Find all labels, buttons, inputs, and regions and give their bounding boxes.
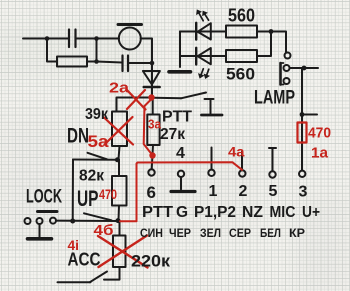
microphone M1 <box>119 28 141 50</box>
svg-text:LAMP: LAMP <box>254 88 295 109</box>
wire ACC left <box>58 281 91 283</box>
svg-text:1а: 1а <box>311 145 329 162</box>
wire node B vertical <box>96 39 98 62</box>
LED rail vertical <box>179 32 181 68</box>
wire R2 bottom <box>119 146 120 160</box>
svg-text:1: 1 <box>209 183 218 200</box>
capacitor C2 <box>123 56 129 72</box>
wire mic right <box>141 39 152 97</box>
wire R6 to node G <box>257 31 271 33</box>
node B junction <box>94 36 99 41</box>
microphone top bar <box>118 23 142 26</box>
resistor R2 39k <box>112 112 127 147</box>
red resistor 470 right <box>298 123 307 143</box>
svg-text:560: 560 <box>228 6 255 26</box>
pin G <box>178 171 184 177</box>
ground lock <box>39 224 41 237</box>
switch UP lever <box>84 213 112 220</box>
red text labels <box>68 81 332 254</box>
svg-text:P1,P2: P1,P2 <box>194 204 236 221</box>
svg-text:MIC: MIC <box>270 204 296 221</box>
svg-text:G: G <box>176 204 188 221</box>
LED D2 <box>198 23 211 39</box>
node G junction <box>269 29 274 34</box>
svg-text:39к: 39к <box>85 106 109 123</box>
node I junction <box>300 112 305 117</box>
switch LAMP contact top <box>285 53 291 59</box>
LED D2 arrows <box>199 13 203 20</box>
svg-text:4i: 4i <box>68 237 80 253</box>
svg-text:82к: 82к <box>79 168 105 185</box>
svg-text:КР: КР <box>289 228 305 240</box>
svg-text:PTT: PTT <box>162 109 193 126</box>
resistor R5 27k <box>147 115 159 146</box>
node H junction <box>302 66 307 71</box>
wire pin5 stem <box>272 149 274 172</box>
svg-text:PTT: PTT <box>142 204 174 221</box>
LED D3 <box>198 48 211 64</box>
switch LAMP lever bar <box>279 63 282 85</box>
wire lamp mid to U+ rail <box>290 67 318 69</box>
svg-text:470: 470 <box>308 125 331 142</box>
wire DN <box>73 159 118 161</box>
wire LED1 anode <box>180 31 226 33</box>
pin 3 <box>299 171 305 177</box>
switch LAMP contact mid <box>284 65 290 71</box>
switch PTT contact <box>205 98 214 100</box>
svg-text:220к: 220к <box>131 252 171 271</box>
wire R5 bottom to pin6 <box>152 145 153 169</box>
svg-text:560: 560 <box>226 65 255 84</box>
capacitor C1 <box>69 30 76 48</box>
wire R7 to node G <box>257 33 271 56</box>
resistor R3 (82k, relabelled 470) <box>112 176 127 206</box>
wire input left <box>23 38 69 40</box>
svg-text:DN: DN <box>67 125 89 148</box>
svg-text:2а: 2а <box>109 81 130 97</box>
svg-text:5а: 5а <box>88 132 110 151</box>
switch ACC lever <box>90 272 107 283</box>
wire node B2 to C2 <box>97 62 123 63</box>
wire node I stub <box>302 114 317 116</box>
wire C1 to node B <box>76 38 97 40</box>
red node J dot <box>149 152 155 158</box>
node E junction <box>115 157 120 162</box>
wire node D right to PTT <box>154 97 181 100</box>
wire C2 to node C <box>128 62 152 64</box>
red wire bypass 27k <box>144 99 153 156</box>
svg-text:NZ: NZ <box>242 204 264 221</box>
component value labels <box>26 6 320 271</box>
switch LOCK contact c <box>50 218 56 224</box>
svg-text:2: 2 <box>239 183 248 200</box>
wire node A down <box>47 39 57 62</box>
node C junction <box>150 61 155 66</box>
svg-text:5: 5 <box>269 183 278 200</box>
svg-text:3а: 3а <box>148 117 162 132</box>
ground pin G <box>180 177 182 190</box>
svg-text:БЕЛ: БЕЛ <box>260 228 281 240</box>
ground LED rail <box>169 70 191 74</box>
switch LOCK contact a <box>25 218 31 224</box>
switch DN lever <box>88 153 108 160</box>
svg-text:СИН: СИН <box>140 228 163 240</box>
pin 6 <box>148 169 154 175</box>
svg-text:СЕР: СЕР <box>229 228 251 240</box>
wire to mic <box>97 38 120 40</box>
wire pin2 stem <box>241 152 243 171</box>
resistor R4 220k <box>113 236 126 268</box>
svg-text:ЧЕР: ЧЕР <box>169 228 191 240</box>
resistor R7 560 <box>226 50 257 62</box>
svg-text:4б: 4б <box>94 223 114 239</box>
red node D dot <box>148 94 154 100</box>
svg-text:U+: U+ <box>302 204 320 221</box>
node B2 junction <box>94 59 99 64</box>
resistor R6 560 <box>226 26 257 38</box>
wire R5 top <box>152 98 154 115</box>
switch LOCK contact b <box>37 218 43 224</box>
resistor R1 <box>57 57 87 67</box>
wire R3 bottom to node F <box>118 206 121 221</box>
svg-text:3: 3 <box>299 184 308 201</box>
red X mark 4b over R4 <box>98 236 148 268</box>
node A junction <box>45 36 50 41</box>
svg-text:LOCK: LOCK <box>26 187 62 208</box>
pin 1 <box>208 170 214 176</box>
LED D3 arrows <box>201 69 203 75</box>
wire ACC bottom path <box>104 267 120 280</box>
wire node E down <box>118 160 120 176</box>
svg-text:UP: UP <box>77 186 99 211</box>
wire 220k top <box>119 221 121 236</box>
node F junction <box>116 218 121 223</box>
switch LOCK lever bar <box>38 210 58 213</box>
wire LED2 anode <box>180 55 226 57</box>
switch LAMP contact bottom <box>284 78 290 84</box>
red annotations <box>98 90 307 268</box>
svg-text:27к: 27к <box>160 126 186 143</box>
wire pin1 stem <box>211 148 213 170</box>
red X mark 2a <box>127 90 146 110</box>
wire U+ rail down <box>301 68 303 143</box>
bus junction at lock wire <box>70 219 75 224</box>
wire R1 right <box>87 61 97 63</box>
wire LOCK to node F <box>56 220 118 222</box>
svg-text:ЗЕЛ: ЗЕЛ <box>200 228 221 240</box>
svg-text:4а: 4а <box>228 144 245 160</box>
pin 5 <box>269 171 275 177</box>
svg-text:470: 470 <box>99 187 117 202</box>
red X mark 5a over R2 <box>104 118 133 145</box>
svg-text:6: 6 <box>147 183 156 202</box>
diode D1 <box>143 71 160 85</box>
wire node G to lamp switch <box>271 32 286 53</box>
pin 2 <box>239 170 245 176</box>
red wire node F to pin2 <box>120 162 242 221</box>
wire node D left <box>117 98 152 112</box>
left bus wire <box>72 160 74 223</box>
svg-text:4: 4 <box>176 145 185 162</box>
wire pin3 stem <box>301 143 303 171</box>
switch PTT lever <box>181 93 206 99</box>
